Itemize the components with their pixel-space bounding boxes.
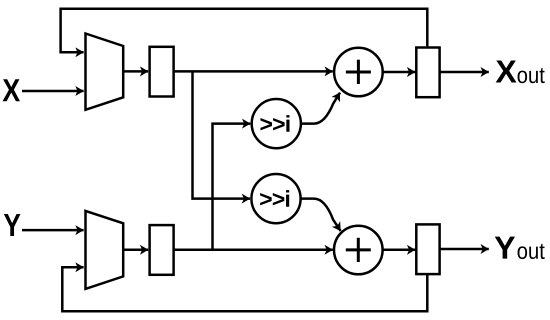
node Y input label	[4, 214, 21, 236]
wire mux X to register X	[123, 70, 148, 73]
wire output register X to Xout	[440, 71, 489, 74]
adder U2 (Y path adder)	[334, 226, 383, 275]
node Yout label	[495, 237, 545, 259]
wire shifter X to adder X (curved)	[301, 93, 340, 124]
mux Y (2:1 multiplexer, trapezoid)	[86, 211, 124, 289]
wire top feedback (Xout register top to mux upper input)	[61, 9, 428, 53]
wire junction: X register output down to shifter Y input	[193, 71, 251, 198]
wire shifter Y to adder Y (curved)	[301, 199, 341, 231]
wire bottom feedback (Yout register bottom to mux lower input)	[62, 267, 427, 311]
node X input label	[3, 79, 20, 101]
wire mux Y to register Y	[123, 249, 148, 252]
wire register X to adder X	[174, 70, 333, 73]
wire X input to mux	[22, 90, 84, 93]
register Xout (output register)	[416, 48, 439, 98]
adder U1 (X path adder)	[334, 48, 383, 97]
wire output register Y to Yout	[440, 248, 489, 251]
register Y (input pipeline register)	[150, 225, 174, 275]
register X (input pipeline register)	[150, 47, 174, 97]
node Xout label	[496, 60, 545, 83]
register Yout (output register)	[416, 224, 439, 274]
shifter X (barrel shift >>i, feeds X adder)	[252, 99, 301, 148]
mux X (2:1 multiplexer, trapezoid)	[86, 34, 124, 110]
wire junction: Y register output up to shifter X input	[213, 124, 251, 250]
wire adder Y to output register Y	[383, 249, 416, 252]
wire Y input to mux	[22, 229, 84, 232]
wire register Y to adder Y	[174, 249, 333, 252]
shifter Y (barrel shift >>i, feeds Y adder)	[251, 174, 300, 223]
wire adder X to output register X	[383, 71, 416, 74]
